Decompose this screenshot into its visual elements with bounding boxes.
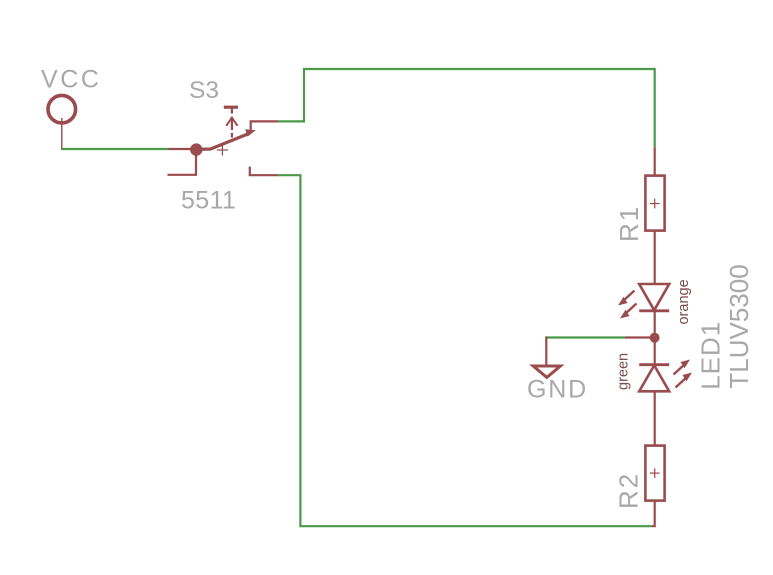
svg-text:5511: 5511 (181, 187, 236, 215)
svg-text:orange: orange (676, 279, 692, 324)
resistor R2 pin bottom (652, 501, 655, 527)
ground GND symbol (533, 366, 560, 377)
svg-text:R1: R1 (614, 205, 644, 242)
LED1 green diode (639, 365, 669, 392)
svg-text:green: green (616, 353, 632, 390)
LED1 green emission arrows (674, 360, 693, 388)
label VCC (41, 66, 102, 94)
svg-text:GND: GND (527, 376, 588, 404)
label TLUV5300 (724, 264, 754, 388)
label R1 (614, 205, 644, 242)
label R2 (614, 472, 644, 509)
label green (616, 353, 632, 390)
label GND (527, 376, 588, 404)
wire junction to GND (546, 336, 625, 338)
switch S3 lever (197, 129, 256, 149)
label orange (676, 279, 692, 324)
switch S3 actuator T-bar (224, 107, 238, 113)
LED midpoint pin to wire (625, 336, 652, 338)
wire green anode to R2 (654, 391, 656, 446)
label LED1 (696, 321, 726, 390)
switch S3 bottom-left pin (168, 152, 198, 175)
switch S3 bottom contact pin (249, 167, 278, 176)
svg-text:TLUV5300: TLUV5300 (724, 264, 754, 388)
wire R1 to LED1 (654, 231, 656, 284)
label 5511 (181, 187, 236, 215)
node junction at S3 (190, 143, 202, 155)
label S3 (189, 77, 219, 104)
svg-text:R2: R2 (614, 472, 644, 509)
wire junction to green cathode (654, 338, 656, 365)
svg-text:VCC: VCC (41, 66, 102, 94)
node junction at LED midpoint (650, 333, 660, 343)
wire VCC to S3 (61, 148, 169, 150)
supply symbol VCC (48, 95, 76, 149)
svg-text:LED1: LED1 (696, 321, 726, 390)
wire S3 top contact to R1 (top loop) (278, 69, 655, 147)
switch S3 top contact pin (250, 121, 278, 131)
resistor R1 pin top (654, 147, 656, 176)
switch S3 plus mark (217, 144, 228, 155)
ground GND pin (545, 336, 547, 365)
wire S3 bottom contact to R2 (bottom loop) (278, 175, 652, 526)
svg-text:S3: S3 (189, 77, 219, 104)
resistor R2 (645, 446, 664, 501)
wire orange cathode to junction (654, 311, 656, 338)
switch S3 actuator arrow (226, 117, 237, 138)
LED1 orange diode (639, 284, 669, 311)
switch S3 common pin (169, 148, 197, 150)
LED1 orange emission arrows (618, 291, 637, 319)
resistor R1 (645, 176, 664, 231)
